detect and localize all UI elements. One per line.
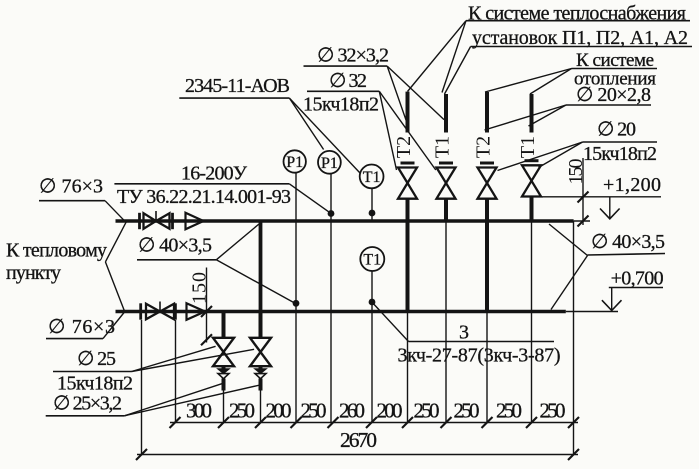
leaders d40x3.5 mid label xyxy=(216,224,296,304)
svg-text:250: 250 xyxy=(229,399,255,423)
leader lines d32x3.2 to stubs 1,2 xyxy=(387,66,444,124)
svg-text:Т1: Т1 xyxy=(363,169,381,186)
level mark +1,200 xyxy=(539,197,661,219)
dimension line row 1 xyxy=(170,422,578,424)
extension line from upper pipe end x=573.5 xyxy=(573,221,575,455)
svg-text:2670: 2670 xyxy=(340,428,377,452)
leader d76x3 lower to lower pipe start xyxy=(103,312,125,339)
svg-text:15кч18п2: 15кч18п2 xyxy=(303,94,379,116)
svg-text:∅ 76×3: ∅ 76×3 xyxy=(39,176,103,198)
svg-text:200: 200 xyxy=(377,399,403,423)
svg-text:250: 250 xyxy=(454,399,480,423)
leader lines 2345-11-AOB to P1 no.2 and T1 upper xyxy=(289,98,360,173)
flow reducer / nozzle on lower pipe xyxy=(187,303,206,320)
dimension ticks row 2 xyxy=(136,449,579,460)
level mark +0,700 xyxy=(602,288,663,311)
leaders d40x3.5 right label to pipe ends xyxy=(549,224,588,310)
svg-text:Т2: Т2 xyxy=(393,136,415,158)
svg-text:16-200У: 16-200У xyxy=(181,163,248,185)
dimension ticks row 1 xyxy=(170,417,580,428)
svg-text:∅ 32: ∅ 32 xyxy=(329,70,367,92)
svg-text:3кч-27-87(3кч-3-87): 3кч-27-87(3кч-3-87) xyxy=(398,345,561,367)
svg-text:∅ 20×2,8: ∅ 20×2,8 xyxy=(576,84,651,106)
leaders d25x3.2 label to branch outlets xyxy=(124,383,260,416)
leader lines d20/15kch18p2 to riser valves 3,4 xyxy=(498,142,583,171)
pipe T2 return main (lower) xyxy=(116,310,619,314)
line from P1 no.1 to lower main and dimension line xyxy=(295,173,297,423)
svg-text:Т1: Т1 xyxy=(517,136,539,158)
svg-text:∅ 40×3,5: ∅ 40×3,5 xyxy=(138,235,212,257)
svg-text:2345-11-АОВ: 2345-11-АОВ xyxy=(185,75,290,97)
svg-text:∅ 32×3,2: ∅ 32×3,2 xyxy=(317,45,389,67)
line from P1 no.2 to upper main and dimension line xyxy=(330,174,332,423)
riser 1 extension below lower main xyxy=(407,312,409,423)
dimension line row 2 (2670) xyxy=(137,454,578,456)
line from T1 lower to lower main and dimension line xyxy=(371,271,373,423)
leader lines top label to riser stubs xyxy=(408,21,471,94)
valve on riser 1 xyxy=(398,168,417,199)
svg-text:Т2: Т2 xyxy=(473,136,495,158)
thermometer T1 lower xyxy=(360,247,384,271)
leader line 16-200U to dot on P1 no.2 line xyxy=(289,184,331,214)
junction dot on T1 upper line xyxy=(369,210,376,217)
valve V2 on lower pipe (flanges + bowtie + stem) xyxy=(141,302,176,320)
leader 3kch label to dot on T1 lower line xyxy=(372,303,408,342)
right 150 dimension line xyxy=(578,158,589,227)
drain cock on branch B1 xyxy=(218,369,230,379)
riser 3 T2 xyxy=(480,92,494,423)
branch B2 below lower main (continuation of jumper) xyxy=(259,312,263,423)
gauge P1 no.1 xyxy=(284,150,306,172)
svg-text:∅ 25×3,2: ∅ 25×3,2 xyxy=(53,393,122,415)
junction dot on P1 no.2 line xyxy=(328,210,335,217)
thermometer T1 upper xyxy=(360,165,384,189)
svg-text:∅ 40×3,5: ∅ 40×3,5 xyxy=(591,231,665,253)
riser 1 T2 xyxy=(401,92,415,312)
riser 4 T1 xyxy=(525,94,539,423)
leader lines heating-system label to stubs 3,4 xyxy=(485,69,572,95)
svg-text:∅ 25: ∅ 25 xyxy=(77,348,116,370)
branch B1 below lower main xyxy=(222,312,226,423)
valve on riser 3 xyxy=(478,168,497,199)
dimension value row xyxy=(186,399,566,423)
left 150 dimension line xyxy=(201,268,212,346)
svg-text:250: 250 xyxy=(540,399,566,423)
svg-text:15кч18п2: 15кч18п2 xyxy=(57,373,133,395)
valve on branch B1 xyxy=(213,338,234,366)
label underlines xyxy=(39,21,692,416)
valve on riser 2 xyxy=(437,168,456,199)
svg-text:+1,200: +1,200 xyxy=(603,174,661,196)
svg-text:установок П1, П2, А1, А2: установок П1, П2, А1, А2 xyxy=(472,27,688,49)
svg-text:пункту: пункту xyxy=(6,262,61,284)
svg-text:260: 260 xyxy=(339,399,365,423)
svg-text:Т1: Т1 xyxy=(363,252,381,269)
svg-text:Р1: Р1 xyxy=(286,154,303,171)
leader lines d32/15kch18p2 to riser valves 1,2 xyxy=(379,91,436,170)
leader d76x3 upper to pipe start xyxy=(105,201,125,221)
leaders d25 label to branch valves xyxy=(132,346,255,371)
extension line from valve flange x=175.5 xyxy=(175,320,177,423)
leader lines d20x2.8 to stubs 3,4 xyxy=(485,105,567,130)
svg-text:250: 250 xyxy=(301,399,327,423)
gauge P1 no.2 xyxy=(318,151,341,174)
svg-text:ТУ 36.22.21.14.001-93: ТУ 36.22.21.14.001-93 xyxy=(117,186,291,208)
pipe T1 supply main (upper) xyxy=(116,219,591,223)
junction dot on P1 no.1 line xyxy=(293,300,300,307)
svg-text:К тепловому: К тепловому xyxy=(6,240,107,262)
valve on riser 4 xyxy=(522,165,541,196)
svg-text:250: 250 xyxy=(496,399,522,423)
line from T1 upper to upper main xyxy=(371,188,373,221)
svg-text:15кч18п2: 15кч18п2 xyxy=(583,143,657,165)
valve V1 on upper pipe (flanges + bowtie + stem) xyxy=(140,211,173,229)
svg-text:Р1: Р1 xyxy=(321,155,338,172)
svg-text:250: 250 xyxy=(414,399,440,423)
svg-text:Т1: Т1 xyxy=(432,136,454,158)
flow reducer / nozzle on upper pipe xyxy=(186,213,204,230)
riser jumper between mains at x=260.5 xyxy=(259,221,263,312)
valve on branch B2 xyxy=(250,338,271,366)
svg-text:150: 150 xyxy=(565,159,587,185)
svg-text:+0,700: +0,700 xyxy=(611,268,664,290)
riser 2 T1 xyxy=(439,94,453,423)
svg-text:300: 300 xyxy=(186,399,212,423)
extension line from valve flange x=141.5 xyxy=(141,320,143,455)
svg-text:∅ 20: ∅ 20 xyxy=(597,119,636,141)
drain cock on branch B2 xyxy=(255,369,267,379)
svg-text:3: 3 xyxy=(459,322,469,344)
gauge circle texts xyxy=(286,154,381,269)
svg-text:∅ 76×3: ∅ 76×3 xyxy=(48,316,115,338)
junction dot on T1 lower line xyxy=(369,299,376,306)
leaders K teplovomu punktu to both pipe starts xyxy=(105,222,126,312)
svg-text:150: 150 xyxy=(189,272,211,304)
svg-text:К системе теплоснабжения: К системе теплоснабжения xyxy=(468,3,686,25)
svg-text:200: 200 xyxy=(266,399,292,423)
